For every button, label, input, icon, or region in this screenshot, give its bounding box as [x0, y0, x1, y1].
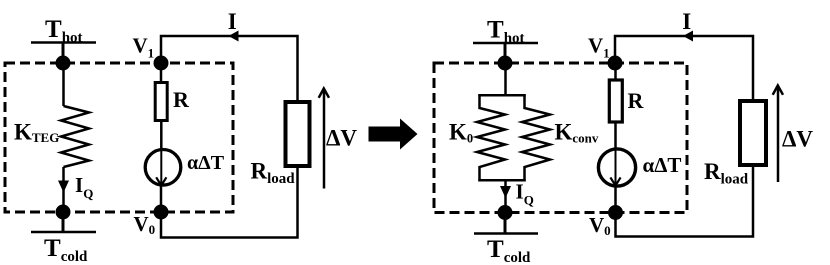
svg-text:R: R — [628, 88, 645, 113]
voltage source circle αΔT (left) — [145, 150, 181, 186]
wire T_hot bar to node (right) — [504, 43, 507, 63]
dashed TEG boundary box (right circuit) — [434, 63, 687, 213]
node V_0 (left) — [154, 205, 169, 220]
thermal terminal bar T_cold (left) — [31, 231, 96, 234]
wire node to K_TEG top — [62, 63, 65, 106]
wire V_1 node to resistor R (right) — [614, 63, 617, 79]
wire R to source (left) — [160, 121, 163, 151]
voltage arrow ΔV (right) — [773, 86, 783, 183]
wire node to T_cold bar (right) — [504, 213, 507, 234]
node junction at T_hot (left) — [56, 56, 71, 71]
wire K_TEG bottom to node at T_cold row — [62, 167, 65, 212]
resistor R (right) — [609, 80, 622, 122]
thermal resistor K_conv (zigzag) — [522, 94, 550, 182]
node junction at T_cold (left) — [56, 205, 71, 220]
node junction at T_cold (right) — [498, 205, 513, 220]
wire T_hot bar to node (left) — [62, 43, 65, 64]
wire node to T_cold bar (left) — [62, 212, 65, 232]
svg-text:αΔT: αΔT — [187, 152, 225, 174]
svg-text:ΔV: ΔV — [782, 127, 813, 152]
svg-text:ΔV: ΔV — [326, 126, 357, 151]
wire node to parallel resistors top bar — [504, 63, 507, 95]
current arrowhead I (left) — [229, 31, 239, 42]
transformation arrow (center) — [369, 119, 418, 150]
wire bottom loop V_0 to R_load (right) — [616, 165, 754, 237]
current arrowhead I (right) — [683, 31, 693, 42]
source internal arrow (left) — [156, 149, 166, 186]
thermal resistor K_TEG (zigzag) — [61, 106, 89, 167]
thermal terminal bar T_hot (right) — [473, 42, 538, 45]
thermal resistor K_0 (zigzag) — [477, 94, 505, 182]
load resistor R_load (left) — [286, 102, 310, 166]
voltage arrow ΔV (left) — [319, 89, 329, 189]
dashed TEG boundary box (left circuit) — [5, 63, 233, 212]
top connector bar of parallel thermal resistors — [478, 94, 525, 97]
node V_0 (right) — [608, 205, 623, 220]
wire top loop V_1 to R_load (right) — [615, 36, 753, 101]
wire parallel resistors to node (right) — [504, 180, 507, 212]
svg-text:I: I — [682, 9, 691, 34]
wire source to node V_0 (left) — [160, 185, 163, 212]
voltage source circle αΔT (right) — [598, 149, 635, 186]
wire bottom loop V_0 to R_load (left) — [161, 166, 298, 238]
resistor R (left) — [155, 83, 167, 121]
thermal terminal bar T_hot (left) — [31, 41, 96, 44]
svg-text:I: I — [228, 9, 237, 34]
source internal arrow (right) — [610, 149, 620, 186]
node V_1 (right) — [608, 56, 623, 71]
bottom connector bar of parallel thermal resistors — [478, 179, 525, 182]
heat flow arrowhead I_Q (right) — [500, 186, 511, 198]
svg-text:αΔT: αΔT — [643, 153, 682, 177]
wire top loop V_1 to R_load (left) — [161, 36, 298, 100]
heat flow arrowhead I_Q (left) — [58, 181, 69, 193]
wire source to node V_0 (right) — [614, 185, 617, 213]
wire R to source (right) — [614, 122, 617, 150]
wire V_1 node to resistor R (left) — [160, 63, 163, 82]
load resistor R_load (right) — [740, 101, 766, 165]
thermal terminal bar T_cold (right) — [474, 232, 538, 235]
node junction at T_hot (right) — [498, 56, 513, 71]
svg-text:R: R — [173, 87, 190, 112]
node V_1 (left) — [154, 56, 169, 71]
